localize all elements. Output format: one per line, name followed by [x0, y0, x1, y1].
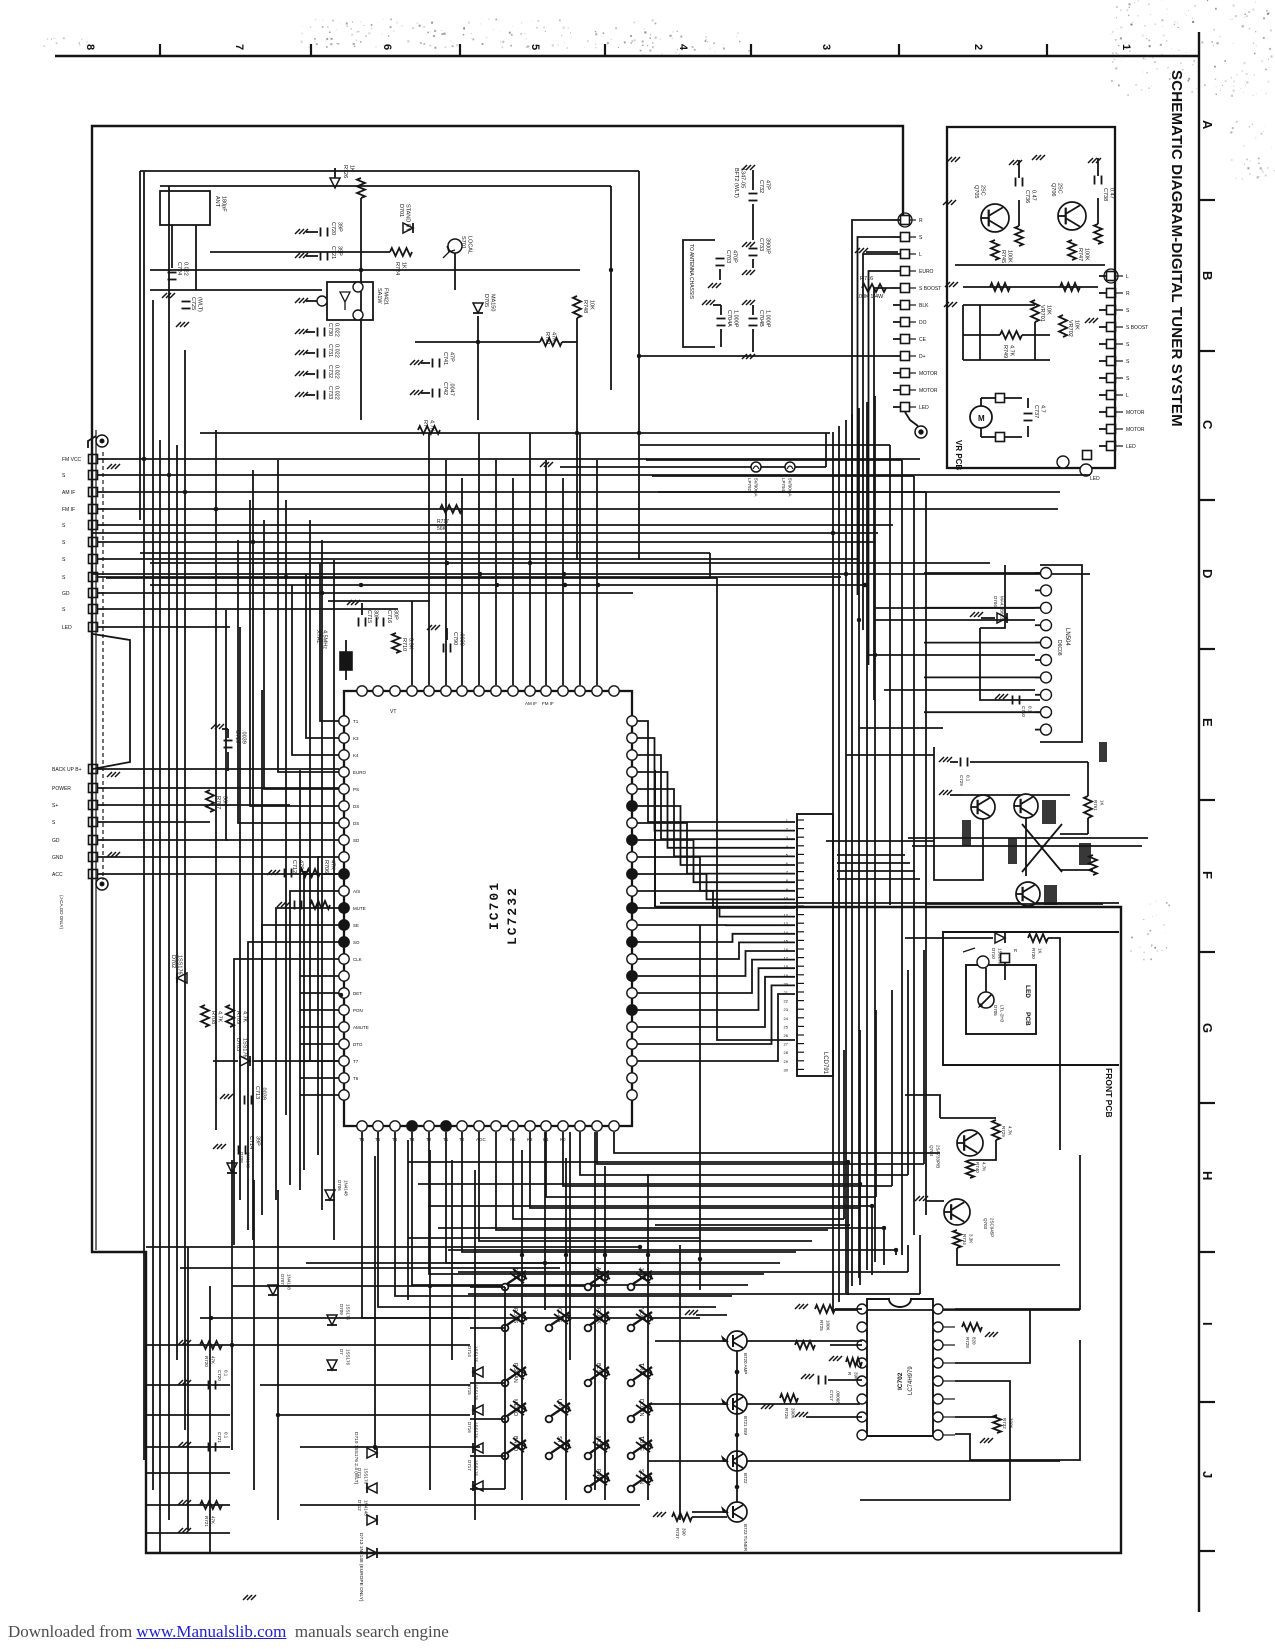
svg-text:R710: R710 — [401, 638, 407, 651]
svg-text:39P: 39P — [337, 222, 343, 232]
svg-text:C724: C724 — [176, 262, 182, 275]
svg-text:0.022: 0.022 — [334, 344, 340, 358]
svg-text:47P: 47P — [449, 352, 455, 362]
svg-text:39K: 39K — [854, 1372, 859, 1380]
svg-text:47K: 47K — [330, 860, 336, 870]
svg-text:EURO: EURO — [353, 770, 367, 775]
svg-text:D702: D702 — [170, 955, 176, 968]
svg-text:S: S — [62, 523, 66, 529]
svg-text:R734: R734 — [962, 1234, 967, 1245]
svg-text:4.7K: 4.7K — [242, 1011, 248, 1023]
svg-text:29: 29 — [784, 1059, 789, 1064]
svg-text:D6C08: D6C08 — [1056, 640, 1062, 656]
svg-text:AMUTE: AMUTE — [353, 1025, 369, 1030]
svg-text:FM IF: FM IF — [542, 701, 554, 706]
svg-text:820: 820 — [972, 1337, 977, 1345]
svg-text:GD: GD — [52, 838, 60, 844]
svg-text:C703: C703 — [725, 250, 731, 263]
svg-text:C713: C713 — [254, 1086, 260, 1099]
svg-text:4.7K: 4.7K — [1008, 1126, 1013, 1135]
svg-text:D705: D705 — [483, 294, 489, 307]
svg-text:D706: D706 — [337, 1180, 342, 1191]
svg-text:T6: T6 — [353, 1076, 359, 1081]
svg-text:C719: C719 — [234, 730, 240, 743]
svg-text:Q704: Q704 — [929, 1145, 934, 1157]
svg-text:C741: C741 — [442, 352, 448, 365]
svg-text:VOC: VOC — [638, 1308, 644, 1320]
svg-text:R761: R761 — [1093, 800, 1098, 811]
svg-text:JAZZ: JAZZ — [638, 1267, 644, 1281]
svg-text:1SS176: 1SS176 — [474, 1346, 479, 1363]
svg-text:LED: LED — [1024, 985, 1031, 998]
svg-text:C738: C738 — [1102, 188, 1108, 201]
svg-text:F: F — [1200, 871, 1215, 879]
svg-text:BACK UP B+: BACK UP B+ — [52, 767, 82, 773]
svg-text:C730: C730 — [327, 323, 333, 336]
svg-text:1SS176: 1SS176 — [474, 1460, 479, 1477]
svg-text:LED: LED — [62, 625, 72, 631]
svg-text:SA1W: SA1W — [376, 288, 382, 304]
svg-text:28: 28 — [784, 1050, 789, 1055]
svg-text:0.47: 0.47 — [1109, 188, 1115, 199]
svg-text:4.7: 4.7 — [1040, 405, 1046, 413]
svg-text:D705: D705 — [993, 1005, 998, 1016]
svg-text:LC74H979: LC74H979 — [908, 1366, 914, 1395]
svg-text:1SS176: 1SS176 — [346, 1349, 351, 1366]
svg-text:SE: SE — [353, 923, 359, 928]
svg-text:0.022: 0.022 — [334, 386, 340, 400]
svg-text:C737: C737 — [1033, 405, 1039, 418]
svg-text:1K: 1K — [401, 262, 407, 269]
svg-text:T7: T7 — [353, 1059, 359, 1064]
svg-text:27: 27 — [784, 1042, 789, 1047]
svg-text:S BOOST: S BOOST — [1126, 325, 1148, 331]
svg-text:FM421: FM421 — [383, 288, 389, 305]
svg-text:390K: 390K — [791, 1408, 796, 1419]
svg-text:IC701: IC701 — [487, 881, 502, 930]
svg-text:R725: R725 — [819, 1320, 824, 1331]
svg-text:10K: 10K — [1046, 305, 1052, 315]
svg-text:0.1: 0.1 — [224, 1370, 229, 1377]
svg-text:B: B — [1200, 271, 1215, 280]
svg-text:100K: 100K — [1007, 250, 1013, 263]
svg-text:1N4148: 1N4148 — [246, 1152, 251, 1168]
svg-text:C720: C720 — [217, 1370, 222, 1381]
svg-text:D713 1N4148 (EUROPE ONLY): D713 1N4148 (EUROPE ONLY) — [358, 1533, 364, 1602]
svg-text:4.5MHz: 4.5MHz — [322, 630, 328, 649]
svg-text:AGC: AGC — [476, 1137, 487, 1142]
svg-text:R708: R708 — [210, 1011, 216, 1024]
svg-text:PS: PS — [353, 787, 359, 792]
svg-text:MOTOR: MOTOR — [1126, 410, 1145, 416]
svg-text:ANT: ANT — [214, 196, 220, 208]
svg-text:R716: R716 — [860, 276, 873, 282]
svg-text:SCHEMATIC DIAGRAM-DIGITAL TUNE: SCHEMATIC DIAGRAM-DIGITAL TUNER SYSTEM — [1168, 70, 1185, 427]
svg-text:D+: D+ — [919, 354, 926, 360]
svg-text:7: 7 — [233, 44, 245, 50]
svg-text:2SC: 2SC — [1057, 183, 1063, 194]
svg-text:C733: C733 — [327, 386, 333, 399]
svg-text:S+: S+ — [52, 803, 58, 809]
svg-text:X7AL: X7AL — [315, 630, 321, 643]
svg-text:R730: R730 — [1031, 948, 1036, 959]
svg-text:ROCK: ROCK — [595, 1308, 601, 1324]
svg-text:2SC: 2SC — [980, 185, 986, 196]
svg-text:1SS176: 1SS176 — [998, 948, 1003, 965]
svg-text:D703: D703 — [235, 1038, 241, 1051]
svg-text:R: R — [1014, 948, 1018, 953]
svg-text:C704B: C704B — [758, 310, 764, 327]
svg-text:C712: C712 — [291, 860, 297, 873]
svg-text:390: 390 — [682, 1528, 687, 1536]
svg-text:5V/90mA: 5V/90mA — [754, 478, 759, 497]
svg-text:B723 TUNER: B723 TUNER — [743, 1524, 748, 1552]
svg-text:0.022: 0.022 — [334, 323, 340, 337]
svg-text:2SC945P: 2SC945P — [990, 1218, 995, 1237]
svg-text:BAND: BAND — [512, 1436, 518, 1451]
svg-text:3.3K: 3.3K — [969, 1234, 974, 1243]
svg-text:TO ANTENNA CHASSIS: TO ANTENNA CHASSIS — [688, 244, 694, 300]
svg-text:DS: DS — [353, 821, 359, 826]
svg-text:R726: R726 — [784, 1408, 789, 1419]
svg-text:E: E — [1200, 718, 1215, 727]
svg-text:L: L — [1126, 393, 1129, 399]
svg-text:100K: 100K — [826, 1320, 831, 1331]
svg-text:S: S — [52, 820, 56, 826]
svg-text:100K: 100K — [1084, 248, 1090, 261]
svg-text:R729: R729 — [1001, 1126, 1006, 1137]
svg-text:DOWN: DOWN — [638, 1399, 644, 1416]
svg-text:R740: R740 — [975, 1162, 980, 1173]
svg-text:FRONT PCB: FRONT PCB — [1104, 1068, 1114, 1118]
svg-text:LED: LED — [1126, 444, 1136, 450]
svg-text:D717: D717 — [467, 1460, 472, 1471]
svg-text:C721: C721 — [217, 1432, 222, 1443]
svg-text:0.1: 0.1 — [224, 1432, 229, 1439]
svg-text:PRE: PRE — [595, 1469, 601, 1481]
svg-text:4.7K: 4.7K — [217, 1011, 223, 1023]
svg-text:R706: R706 — [323, 860, 329, 873]
svg-text:DTO: DTO — [353, 1042, 363, 1047]
svg-text:4.7K: 4.7K — [429, 420, 435, 432]
svg-text:LP792: LP792 — [747, 478, 752, 492]
svg-text:4.7K: 4.7K — [982, 1162, 987, 1171]
svg-text:Q705: Q705 — [973, 185, 979, 198]
svg-text:470P: 470P — [732, 250, 738, 263]
svg-text:A: A — [1200, 120, 1215, 130]
svg-text:10K: 10K — [1074, 320, 1080, 330]
svg-text:DS: DS — [353, 804, 359, 809]
svg-text:R721: R721 — [204, 1516, 209, 1527]
svg-text:M: M — [978, 414, 985, 423]
svg-text:R717: R717 — [437, 519, 449, 525]
svg-text:D716: D716 — [467, 1422, 472, 1433]
svg-text:D7: D7 — [339, 1349, 344, 1355]
svg-text:D704: D704 — [993, 596, 998, 607]
svg-text:39P: 39P — [337, 246, 343, 256]
svg-text:A/S: A/S — [353, 889, 360, 894]
svg-text:T1: T1 — [353, 719, 359, 724]
svg-text:1N4148: 1N4148 — [364, 1500, 369, 1516]
svg-text:S: S — [62, 575, 66, 581]
svg-text:R747: R747 — [1077, 248, 1083, 261]
svg-text:D: D — [1200, 569, 1215, 578]
svg-text:L: L — [1126, 274, 1129, 280]
svg-text:FM IF: FM IF — [62, 507, 75, 513]
svg-text:D711: D711 — [357, 1468, 362, 1479]
svg-text:5V/90mA: 5V/90mA — [788, 478, 793, 497]
svg-text:SO: SO — [353, 940, 360, 945]
svg-text:R: R — [1126, 291, 1130, 297]
svg-text:C716: C716 — [386, 610, 392, 623]
svg-text:(WLT): (WLT) — [197, 297, 203, 312]
svg-text:4.7K: 4.7K — [1009, 345, 1015, 357]
svg-text:BFT2 (WLT): BFT2 (WLT) — [733, 168, 739, 198]
svg-text:MA150: MA150 — [490, 294, 496, 311]
svg-text:30P: 30P — [373, 610, 379, 620]
svg-text:39P: 39P — [255, 1136, 261, 1146]
svg-text:DET: DET — [353, 991, 362, 996]
svg-text:H: H — [1200, 1171, 1215, 1180]
svg-text:6: 6 — [381, 44, 393, 50]
svg-text:47P: 47P — [298, 860, 304, 870]
svg-text:R707: R707 — [215, 796, 221, 809]
svg-text:AME: AME — [595, 1267, 601, 1279]
svg-text:MOTOR: MOTOR — [919, 371, 938, 377]
svg-text:24: 24 — [784, 1016, 789, 1021]
svg-text:UP: UP — [556, 1399, 562, 1407]
svg-text:MO: MO — [595, 1436, 601, 1446]
svg-text:VR701: VR701 — [1039, 305, 1045, 322]
svg-text:.0047: .0047 — [449, 382, 455, 396]
svg-text:4: 4 — [677, 44, 689, 51]
svg-text:CLK: CLK — [353, 957, 362, 962]
svg-text:25: 25 — [784, 1024, 789, 1029]
svg-text:R: R — [919, 218, 923, 224]
svg-text:R745: R745 — [1000, 250, 1006, 263]
svg-text:R720: R720 — [204, 1356, 209, 1367]
svg-text:D712: D712 — [357, 1500, 362, 1511]
svg-text:1SS176: 1SS176 — [364, 1468, 369, 1485]
svg-text:GD: GD — [62, 591, 70, 597]
svg-text:SCAN: SCAN — [638, 1469, 644, 1484]
svg-text:R726: R726 — [342, 165, 348, 178]
svg-text:R: R — [847, 1372, 852, 1376]
svg-text:R737: R737 — [675, 1528, 680, 1539]
svg-text:B722: B722 — [743, 1473, 748, 1484]
svg-text:S: S — [62, 557, 66, 563]
svg-text:C715: C715 — [366, 610, 372, 623]
svg-text:K4: K4 — [353, 753, 359, 758]
svg-text:S: S — [62, 473, 66, 479]
svg-text:DO: DO — [919, 320, 927, 326]
svg-text:P.SCAN: P.SCAN — [512, 1363, 518, 1383]
svg-text:C790: C790 — [452, 632, 458, 645]
svg-text:22: 22 — [784, 999, 789, 1004]
svg-text:C: C — [1200, 420, 1215, 430]
svg-text:L: L — [919, 252, 922, 258]
svg-text:D714: D714 — [467, 1346, 472, 1357]
svg-text:R709: R709 — [235, 1011, 241, 1024]
svg-text:1SS176: 1SS176 — [474, 1422, 479, 1439]
svg-text:1K: 1K — [349, 165, 355, 172]
svg-text:C736: C736 — [1024, 190, 1030, 203]
svg-text:J: J — [1200, 1471, 1215, 1478]
svg-text:LP794: LP794 — [781, 478, 786, 492]
svg-text:D707: D707 — [280, 1274, 285, 1285]
svg-text:S BOOST: S BOOST — [919, 286, 941, 292]
svg-text:SP11: SP11 — [512, 1267, 518, 1280]
svg-text:G: G — [1200, 1023, 1215, 1033]
svg-text:ST: ST — [556, 1436, 562, 1444]
svg-text:CE: CE — [919, 337, 927, 343]
svg-text:.0039: .0039 — [241, 730, 247, 744]
svg-text:GND: GND — [52, 855, 64, 861]
svg-text:TRE: TRE — [638, 1363, 644, 1374]
svg-text:3: 3 — [820, 44, 832, 50]
svg-text:K3: K3 — [353, 736, 359, 741]
svg-text:ACC: ACC — [52, 872, 63, 878]
svg-text:2: 2 — [972, 44, 984, 50]
svg-text:S: S — [1126, 376, 1130, 382]
svg-text:MUTE: MUTE — [353, 906, 366, 911]
svg-text:1SS176: 1SS176 — [177, 955, 183, 975]
svg-text:PCB: PCB — [1024, 1012, 1031, 1026]
svg-text:R724: R724 — [394, 262, 400, 275]
svg-text:C733: C733 — [758, 238, 764, 251]
svg-text:1K: 1K — [1038, 948, 1043, 954]
svg-text:EURO: EURO — [919, 269, 934, 275]
svg-text:FM VCC: FM VCC — [62, 457, 82, 463]
svg-text:R728: R728 — [965, 1337, 970, 1348]
svg-text:BLK: BLK — [919, 303, 929, 309]
svg-text:MOTOR: MOTOR — [1126, 427, 1145, 433]
svg-text:LCD791: LCD791 — [822, 1052, 828, 1075]
svg-text:0.1: 0.1 — [1028, 706, 1033, 713]
svg-text:0.1: 0.1 — [966, 775, 971, 782]
svg-text:C732: C732 — [327, 365, 333, 378]
svg-text:0.47: 0.47 — [1031, 190, 1037, 201]
svg-text:CLAS: CLAS — [556, 1308, 562, 1323]
svg-text:S: S — [1126, 359, 1130, 365]
svg-text:VR PCB: VR PCB — [954, 440, 963, 470]
svg-text:PON: PON — [353, 1008, 363, 1013]
svg-text:IC702: IC702 — [897, 1372, 904, 1390]
svg-text:2SA733P/B: 2SA733P/B — [936, 1145, 941, 1168]
svg-text:C732: C732 — [758, 180, 764, 193]
svg-text:AM IF: AM IF — [62, 490, 75, 496]
svg-text:LTL-2H3: LTL-2H3 — [1000, 1005, 1005, 1023]
svg-text:C729: C729 — [959, 775, 964, 786]
svg-text:C704A: C704A — [726, 310, 732, 327]
svg-text:LC7232: LC7232 — [505, 886, 520, 945]
svg-text:I: I — [1200, 1322, 1215, 1326]
svg-text:10K: 10K — [589, 300, 595, 310]
svg-text:1.000P: 1.000P — [733, 310, 739, 328]
svg-text:R731: R731 — [544, 332, 550, 345]
svg-text:LN504: LN504 — [1064, 628, 1070, 646]
svg-text:BLS: BLS — [595, 1363, 601, 1374]
svg-text:0.022: 0.022 — [334, 365, 340, 379]
svg-text:Q706: Q706 — [1050, 183, 1056, 196]
svg-text:1SS176: 1SS176 — [242, 1038, 248, 1058]
svg-text:LED: LED — [1090, 476, 1100, 482]
svg-text:D710: D710 — [991, 948, 996, 959]
svg-text:47P: 47P — [765, 180, 771, 190]
svg-text:SD: SD — [353, 838, 360, 843]
svg-text:1N4148: 1N4148 — [287, 1274, 292, 1290]
svg-text:LOCAL: LOCAL — [467, 236, 473, 254]
svg-text:S: S — [62, 607, 66, 613]
svg-text:180pF: 180pF — [221, 196, 227, 212]
svg-text:C725: C725 — [190, 297, 196, 310]
svg-text:Q703: Q703 — [983, 1218, 988, 1230]
svg-text:B721 SW: B721 SW — [743, 1416, 748, 1436]
svg-text:D708: D708 — [239, 1152, 244, 1163]
svg-text:R7: R7 — [422, 420, 428, 427]
svg-text:C710: C710 — [1021, 706, 1026, 717]
svg-text:R749: R749 — [1002, 345, 1008, 358]
svg-text:R748: R748 — [582, 300, 588, 313]
svg-text:47K: 47K — [551, 332, 557, 342]
svg-text:1SS176: 1SS176 — [346, 1304, 351, 1321]
svg-text:S: S — [1126, 342, 1130, 348]
svg-text:MOTOR: MOTOR — [919, 388, 938, 394]
svg-text:(J-CA,GD ONLY): (J-CA,GD ONLY) — [59, 895, 64, 930]
svg-text:.00068: .00068 — [836, 1390, 841, 1404]
svg-text:LED: LED — [919, 405, 929, 411]
svg-text:1347-05: 1347-05 — [740, 168, 746, 188]
svg-text:D701: D701 — [398, 204, 404, 217]
svg-text:S: S — [919, 235, 923, 241]
svg-text:1.000P: 1.000P — [765, 310, 771, 328]
svg-text:TUNE: TUNE — [638, 1436, 644, 1451]
svg-text:C742: C742 — [442, 382, 448, 395]
svg-text:S: S — [1126, 308, 1130, 314]
svg-text:0.022: 0.022 — [183, 262, 189, 276]
svg-text:C731: C731 — [327, 344, 333, 357]
svg-text:D715: D715 — [467, 1384, 472, 1395]
svg-text:47K: 47K — [211, 1516, 216, 1524]
svg-text:C720: C720 — [330, 222, 336, 235]
svg-text:3900P: 3900P — [765, 238, 771, 254]
svg-text:23: 23 — [784, 1007, 789, 1012]
svg-text:1N4148: 1N4148 — [344, 1180, 349, 1196]
svg-text:S701: S701 — [460, 236, 466, 249]
svg-text:30P: 30P — [393, 610, 399, 620]
svg-text:1SS176: 1SS176 — [474, 1384, 479, 1401]
svg-text:1K: 1K — [1100, 800, 1105, 806]
svg-text:100K 1/4W: 100K 1/4W — [856, 294, 884, 300]
svg-text:5: 5 — [529, 44, 541, 50]
svg-text:POWER: POWER — [52, 786, 71, 792]
svg-text:VT: VT — [390, 709, 396, 715]
svg-text:D709: D709 — [339, 1304, 344, 1315]
svg-text:26: 26 — [784, 1033, 789, 1038]
svg-text:47K: 47K — [211, 1356, 216, 1364]
svg-text:C717: C717 — [829, 1390, 834, 1401]
svg-text:MEMO: MEMO — [512, 1399, 518, 1417]
svg-text:B720 AMP: B720 AMP — [743, 1353, 748, 1374]
svg-text:1: 1 — [1120, 44, 1132, 50]
svg-text:30: 30 — [784, 1067, 789, 1072]
svg-text:VR702: VR702 — [1067, 320, 1073, 337]
svg-text:STAND BY: STAND BY — [405, 204, 411, 231]
svg-text:POPS: POPS — [512, 1308, 518, 1324]
svg-text:R732: R732 — [1002, 1418, 1007, 1429]
svg-text:S: S — [62, 540, 66, 546]
svg-text:AM IF: AM IF — [525, 701, 537, 706]
